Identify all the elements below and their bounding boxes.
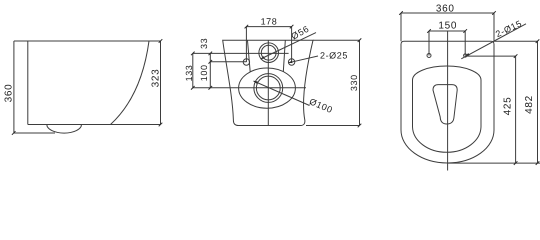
dimension 330 line xyxy=(306,40,360,125)
svg-text:360: 360 xyxy=(4,84,15,103)
svg-text:425: 425 xyxy=(503,97,514,116)
svg-text:150: 150 xyxy=(438,20,457,31)
dimension 360 (top) xyxy=(401,13,494,41)
arrowhead of leader 2-&#216;25 xyxy=(288,61,292,64)
vertical centerline rear view xyxy=(267,40,269,125)
ticks 178 xyxy=(245,25,294,29)
leader 2-Ø25 xyxy=(288,56,318,63)
svg-text:178: 178 xyxy=(261,17,278,27)
extension line at bolt hole center xyxy=(210,61,246,63)
dimension 133 line xyxy=(192,53,194,87)
extension line at Ø100 center xyxy=(193,87,306,89)
bowl water outline xyxy=(433,85,457,124)
svg-text:Ø100: Ø100 xyxy=(308,96,334,115)
svg-text:33: 33 xyxy=(199,38,209,49)
ticks 330 xyxy=(358,38,362,127)
dimension 482 line xyxy=(448,41,540,163)
dimension 33/100 line xyxy=(209,53,211,87)
seat fixing hole left xyxy=(427,54,431,58)
dimension 323 line (right edge of side view) xyxy=(160,41,162,125)
rear view body outline xyxy=(223,40,313,125)
bolt hole right 2-Ø25 xyxy=(288,59,294,65)
svg-text:133: 133 xyxy=(184,65,194,82)
dimension 178 line xyxy=(246,26,291,28)
extension lines 178 to bolt holes xyxy=(246,27,291,62)
extension line at Ø56 center xyxy=(193,52,289,54)
ticks 482 xyxy=(536,39,540,164)
svg-text:2-Ø15: 2-Ø15 xyxy=(494,18,524,39)
side view body outline xyxy=(14,41,161,125)
tick 323 bottom xyxy=(159,123,163,127)
arrowhead of leader 2-&#216;15 xyxy=(465,53,469,56)
seat outline xyxy=(413,66,482,152)
Ø56 inner circle xyxy=(261,45,276,60)
arrowhead of leader &#216;56 xyxy=(261,56,265,59)
leader Ø56 xyxy=(261,33,316,59)
plan body outline xyxy=(401,41,494,163)
svg-text:2-Ø25: 2-Ø25 xyxy=(320,50,348,60)
ticks 425 xyxy=(514,54,518,165)
dimension 360 line (left) xyxy=(14,41,55,133)
ticks 150 xyxy=(427,29,467,33)
tick 323 top xyxy=(159,39,163,43)
svg-text:482: 482 xyxy=(524,95,535,114)
Ø100 outer horn ellipse xyxy=(239,68,296,108)
vertical centerline plan xyxy=(447,31,449,171)
ticks 33 and 100 xyxy=(209,52,213,90)
svg-text:330: 330 xyxy=(349,74,359,91)
Ø100 inner circle xyxy=(256,76,280,100)
Ø56 outer circle xyxy=(259,43,279,63)
arrowhead of leader &#216;100 xyxy=(254,81,258,84)
ticks 360 top xyxy=(399,11,496,15)
Ø100 outer circle xyxy=(254,74,283,103)
ticks 133 xyxy=(191,52,195,90)
front profile curve xyxy=(111,41,150,125)
bolt hole left 2-Ø25 xyxy=(243,59,249,65)
seat fixing hole right xyxy=(464,54,467,57)
svg-text:323: 323 xyxy=(150,69,161,88)
outlet bump (half ellipse) xyxy=(47,125,82,134)
leader 2-Ø15 xyxy=(461,24,526,59)
svg-text:100: 100 xyxy=(199,64,209,81)
dimension 425 line xyxy=(465,56,515,163)
svg-text:Ø56: Ø56 xyxy=(290,24,311,42)
tick 360 bottom xyxy=(12,131,16,135)
dimension 150 xyxy=(429,31,465,56)
svg-text:360: 360 xyxy=(436,3,455,14)
leader Ø100 xyxy=(254,81,310,106)
inlet boss around Ø56 xyxy=(248,41,286,72)
